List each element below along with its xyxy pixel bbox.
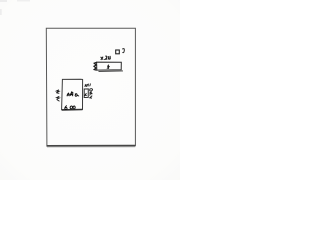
connector mark at left edge of U1: [94, 62, 97, 70]
rotated label right of U3 (middle glyph): [90, 92, 92, 95]
rotated label left of U2 (lower): [56, 96, 59, 101]
pin mark inside U1: [108, 65, 110, 69]
paper background: [0, 0, 180, 180]
soft shadow under bottom edge: [47, 146, 135, 148]
pin mark inside U3: [85, 93, 87, 96]
soft-focus wrapper: [0, 0, 180, 180]
small square marker: [116, 50, 120, 54]
block U3 (small rectangle right of U2): [84, 89, 88, 98]
label J beside square: [122, 49, 124, 53]
rotated label left of U2 (upper): [56, 90, 59, 94]
outer boundary bottom edge (heavy stroke): [47, 145, 136, 147]
label x11 above U3: [85, 83, 91, 86]
label x2U above U1: [101, 56, 111, 60]
block U1 (upper horizontal rectangle): [97, 62, 122, 70]
outer boundary rectangle: [46, 28, 135, 146]
block U2 (left vertical rectangle): [62, 79, 83, 109]
rotated label right of U3: [90, 89, 93, 92]
block U1 underline stroke: [99, 70, 124, 73]
rotated label right of U3 (lower glyph): [90, 95, 93, 98]
block U2 bottom edge (heavy stroke): [62, 109, 83, 111]
label 6 90 inside U2 bottom: [65, 106, 75, 110]
label d4a inside U2: [67, 91, 79, 96]
